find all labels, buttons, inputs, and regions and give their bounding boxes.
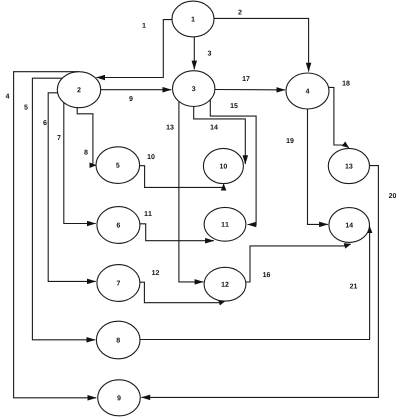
wire edge 19 (4 to 14) xyxy=(308,109,328,224)
wire edge 15 (3 to 11) xyxy=(210,100,256,225)
wire edge 8 (2 to 5) xyxy=(77,108,96,166)
node 2 xyxy=(57,72,100,108)
node 1 xyxy=(172,1,214,37)
node 5 xyxy=(96,147,140,184)
edge label 9 xyxy=(129,96,132,101)
node 11 xyxy=(204,207,246,241)
node label 11 xyxy=(222,222,229,227)
node label 9 xyxy=(117,395,120,400)
node 3 xyxy=(173,71,215,107)
edge label 19 xyxy=(287,138,294,143)
node label 6 xyxy=(117,223,120,228)
node 9 xyxy=(98,380,141,416)
edge label 14 xyxy=(211,125,218,130)
node 10 xyxy=(203,148,243,183)
edge label 11 xyxy=(145,211,152,216)
node label 7 xyxy=(117,281,120,286)
wire edge 21 (8 to 14) xyxy=(140,227,370,340)
node 7 xyxy=(97,265,140,302)
node label 4 xyxy=(306,89,310,94)
wire edge 4 (2 to 9) xyxy=(14,72,97,398)
node 4 xyxy=(286,73,329,109)
node 6 xyxy=(97,207,140,244)
edge label 18 xyxy=(343,81,350,86)
wire edge 1 (1 to 2) xyxy=(96,20,172,78)
wire edge 9 (2 to 3) xyxy=(101,89,172,91)
edge label 4 xyxy=(6,94,10,99)
edge label 8 xyxy=(84,150,87,155)
edge label 10 xyxy=(148,154,155,159)
node label 8 xyxy=(116,338,119,343)
wire edge 16 (12 to 14) xyxy=(246,244,351,282)
wire edge 2 (1 to 4) xyxy=(214,18,309,71)
edge label 17 xyxy=(243,76,250,81)
edge label 7 xyxy=(57,135,60,140)
node label 3 xyxy=(192,86,195,91)
wire edge 10 (5 to 10) xyxy=(140,166,224,188)
wire edge 13 (3 to 12) xyxy=(179,102,203,282)
edge label 5 xyxy=(24,105,27,110)
edge label 20 xyxy=(389,193,396,198)
edge label 6 xyxy=(43,120,46,125)
node label 2 xyxy=(77,87,80,92)
edge label 15 xyxy=(231,103,238,108)
wire edge 17 (3 to 4) xyxy=(215,89,285,91)
node label 13 xyxy=(345,164,352,169)
node label 12 xyxy=(222,282,229,287)
edge label 13 xyxy=(167,125,174,130)
wire edge 7 (2 to 6) xyxy=(64,103,96,224)
node 13 xyxy=(328,148,369,183)
node label 10 xyxy=(220,164,227,169)
node label 14 xyxy=(346,223,353,228)
edge label 21 xyxy=(350,284,357,289)
node 12 xyxy=(204,267,246,301)
edge label 2 xyxy=(238,10,241,15)
node label 5 xyxy=(116,163,119,168)
wire edge 20 (13 to 9) xyxy=(142,166,379,398)
wire edge 18 (4 to 13) xyxy=(329,87,349,147)
wire edge 14 (3 to 10) xyxy=(194,106,246,164)
edge label 12 xyxy=(152,270,159,275)
node 8 xyxy=(96,321,140,359)
wire edge 3 (1 to 3) xyxy=(193,37,195,69)
edge label 3 xyxy=(208,51,211,56)
node label 1 xyxy=(191,17,194,22)
edge label 16 xyxy=(263,272,270,277)
wire edge 6 (2 to 7) xyxy=(48,93,95,282)
edge label 1 xyxy=(142,23,145,28)
node 14 xyxy=(329,208,370,243)
wire edge 12 (7 to 12) xyxy=(140,282,225,303)
wire edge 5 (2 to 8) xyxy=(32,78,95,340)
wire edge 11 (6 to 11) xyxy=(140,224,214,241)
